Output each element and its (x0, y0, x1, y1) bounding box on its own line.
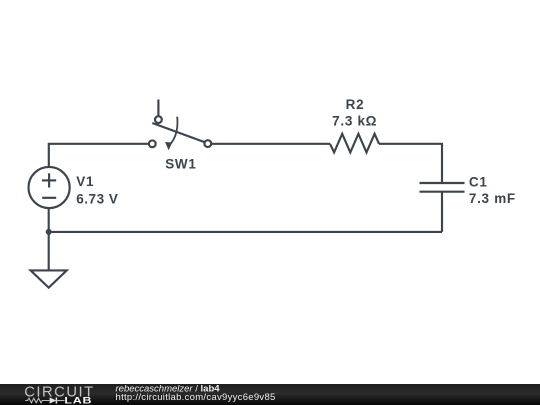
logo resistor (25, 398, 49, 403)
wire: bottom rail (49, 231, 442, 233)
svg-text:7.3 kΩ: 7.3 kΩ (332, 114, 377, 129)
svg-text:R2: R2 (346, 97, 365, 112)
node: junction of V1, ground and bottom rail (46, 229, 52, 235)
svg-text:6.73 V: 6.73 V (76, 192, 118, 207)
wire: V1 bottom terminal to junction node (48, 208, 50, 232)
wire: C1 bottom plate down to bottom rail (441, 192, 443, 232)
switch SW1 (149, 100, 211, 151)
capacitor C1 (420, 183, 465, 192)
svg-text:7.3 mF: 7.3 mF (469, 191, 516, 206)
svg-text:http://circuitlab.com/cav9yyc6: http://circuitlab.com/cav9yyc6e9v85 (116, 392, 276, 403)
svg-text:C1: C1 (469, 174, 488, 189)
voltage source V1 (28, 167, 69, 208)
svg-text:V1: V1 (76, 174, 94, 189)
svg-text:LAB: LAB (64, 396, 92, 405)
footer bar (0, 384, 540, 405)
svg-text:SW1: SW1 (165, 156, 196, 171)
ground (31, 232, 67, 288)
resistor R2 (330, 134, 379, 153)
logo diode (50, 397, 57, 403)
wire: SW1 right terminal to R2 (211, 143, 330, 145)
wire: R2 to C1 top plate (379, 144, 442, 183)
wire: V1 top terminal up and right to SW1 left terminal (49, 144, 149, 167)
